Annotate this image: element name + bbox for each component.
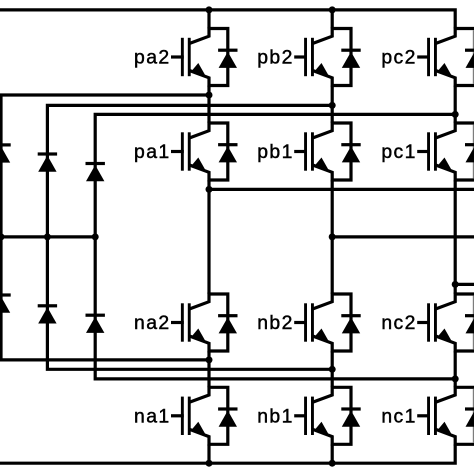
svg-text:pc1: pc1 [381, 141, 416, 163]
svg-text:nc2: nc2 [381, 312, 416, 334]
svg-text:pa2: pa2 [134, 47, 171, 69]
svg-text:na2: na2 [134, 312, 171, 334]
svg-text:pb1: pb1 [257, 141, 294, 163]
svg-text:pb2: pb2 [257, 47, 294, 69]
svg-text:pa1: pa1 [134, 141, 171, 163]
svg-text:pc2: pc2 [381, 47, 416, 69]
svg-text:nc1: nc1 [381, 406, 416, 428]
svg-text:na1: na1 [134, 406, 171, 428]
svg-text:nb2: nb2 [257, 312, 294, 334]
svg-text:nb1: nb1 [257, 406, 294, 428]
